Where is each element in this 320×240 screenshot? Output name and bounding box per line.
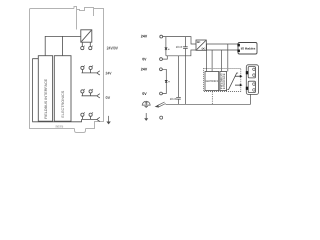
svg-text:INTERFACE: INTERFACE	[223, 73, 226, 89]
svg-text:DC: DC	[202, 48, 206, 51]
svg-text:24V: 24V	[141, 33, 148, 38]
svg-text:24V: 24V	[106, 71, 112, 76]
svg-text:0V: 0V	[142, 91, 147, 96]
svg-text:DC: DC	[197, 41, 201, 44]
svg-text:10 nF: 10 nF	[170, 97, 177, 101]
svg-text:ELECTRONICS: ELECTRONICS	[206, 80, 218, 83]
svg-text:0V: 0V	[106, 95, 111, 100]
svg-text:10 nF: 10 nF	[176, 45, 183, 49]
svg-text:0V: 0V	[142, 56, 147, 61]
svg-text:24V: 24V	[141, 67, 148, 72]
svg-text:ELECTRONICS: ELECTRONICS	[61, 90, 65, 118]
svg-text:750-375: 750-375	[55, 125, 63, 129]
svg-text:24V/0V: 24V/0V	[107, 46, 119, 51]
svg-text:FIELDBUS INTERFACE: FIELDBUS INTERFACE	[44, 78, 48, 119]
svg-text:I/O Modules: I/O Modules	[241, 46, 256, 50]
